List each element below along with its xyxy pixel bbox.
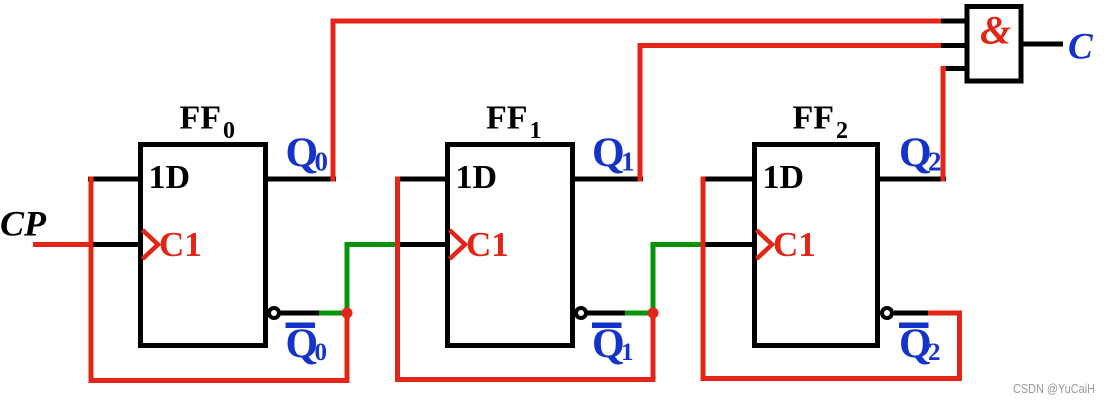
svg-text:2: 2 <box>836 118 848 144</box>
wire: FF1 feedback Qbar1 to D (red) <box>398 177 654 380</box>
wire: FF1 D input stub (black) <box>395 177 448 182</box>
wire: FF0 Qbar output stub (black) <box>279 311 322 316</box>
wire: AND gate input 3 stub (black) <box>941 66 967 71</box>
FF2 inverted output bubble <box>882 308 892 318</box>
FF0 clock edge wedge <box>143 230 159 259</box>
wire: green Qbar0 to FF1 clock <box>319 245 398 314</box>
svg-text:C1: C1 <box>159 225 202 264</box>
svg-text:C: C <box>1068 27 1094 68</box>
wire: FF2 feedback Qbar2 to D (red) <box>703 177 960 379</box>
FF0 inverted output bubble <box>269 308 279 318</box>
svg-text:&: & <box>980 8 1011 53</box>
svg-text:1: 1 <box>621 147 635 177</box>
wire: FF1 C1 clock input stub (black) <box>395 242 448 247</box>
svg-text:FF: FF <box>793 100 835 137</box>
svg-text:1: 1 <box>530 118 542 144</box>
svg-text:0: 0 <box>223 118 235 144</box>
wire: FF0 C1 clock input stub (black) <box>88 242 141 247</box>
wire: FF0 D input stub (black) <box>88 177 141 182</box>
flip-flop FF0 box <box>141 145 266 346</box>
FF2 clock edge wedge <box>757 230 773 259</box>
junction node Qbar1 (red dot) <box>648 308 659 319</box>
svg-text:Q: Q <box>286 131 319 177</box>
svg-text:Q: Q <box>592 131 625 177</box>
svg-text:CP: CP <box>0 204 47 244</box>
wire: FF0 Q output stub (black) <box>265 177 336 182</box>
svg-text:C1: C1 <box>466 225 509 264</box>
wire: Q1 to AND gate input 2 (red) <box>640 46 941 182</box>
svg-text:1D: 1D <box>456 159 498 196</box>
svg-text:FF: FF <box>180 100 222 137</box>
svg-text:Q: Q <box>899 322 932 368</box>
svg-text:FF: FF <box>486 100 528 137</box>
wire: AND gate input 1 stub (black) <box>939 19 967 24</box>
wire: Q2 to AND gate input 3 (red) <box>943 69 946 182</box>
svg-text:2: 2 <box>928 147 942 177</box>
svg-text:Q: Q <box>286 322 319 368</box>
flip-flop FF2 box <box>755 145 878 346</box>
svg-text:Q: Q <box>592 322 625 368</box>
wire: AND gate output stub (black) <box>1022 42 1063 47</box>
svg-text:0: 0 <box>315 147 329 177</box>
wire: AND gate input 2 stub (black) <box>939 43 967 48</box>
svg-text:1: 1 <box>621 339 634 366</box>
svg-text:1D: 1D <box>763 159 805 196</box>
wire: CP input (red) <box>33 242 91 247</box>
wire: FF2 Qbar output stub (black) <box>894 311 931 316</box>
FF1 inverted output bubble <box>576 308 586 318</box>
label Qbar1 overline <box>592 323 622 329</box>
junction node Qbar0 (red dot) <box>342 308 353 319</box>
wire: FF2 C1 clock input stub (black) <box>701 242 755 247</box>
wire: FF0 feedback Qbar0 to D (red) <box>91 177 347 381</box>
FF1 clock edge wedge <box>450 230 466 259</box>
wire: Q0 to AND gate input 1 (red) <box>333 21 941 182</box>
wire: FF2 D input stub (black) <box>701 177 755 182</box>
label Qbar0 overline <box>286 323 316 329</box>
svg-text:CSDN @YuCaiH: CSDN @YuCaiH <box>1013 381 1095 396</box>
svg-text:2: 2 <box>928 339 941 366</box>
wire: green Qbar1 to FF2 clock <box>625 245 703 314</box>
wire: FF2 Q output stub (black) <box>877 177 946 182</box>
svg-text:Q: Q <box>899 131 932 177</box>
flip-flop FF1 box <box>448 145 573 346</box>
wire: FF1 Q output stub (black) <box>572 177 643 182</box>
wire: FF1 Qbar output stub (black) <box>586 311 628 316</box>
AND gate U1 box <box>967 7 1021 82</box>
label Qbar2 overline <box>899 323 929 329</box>
svg-text:1D: 1D <box>149 159 191 196</box>
svg-text:C1: C1 <box>773 225 816 264</box>
svg-text:0: 0 <box>315 339 328 366</box>
